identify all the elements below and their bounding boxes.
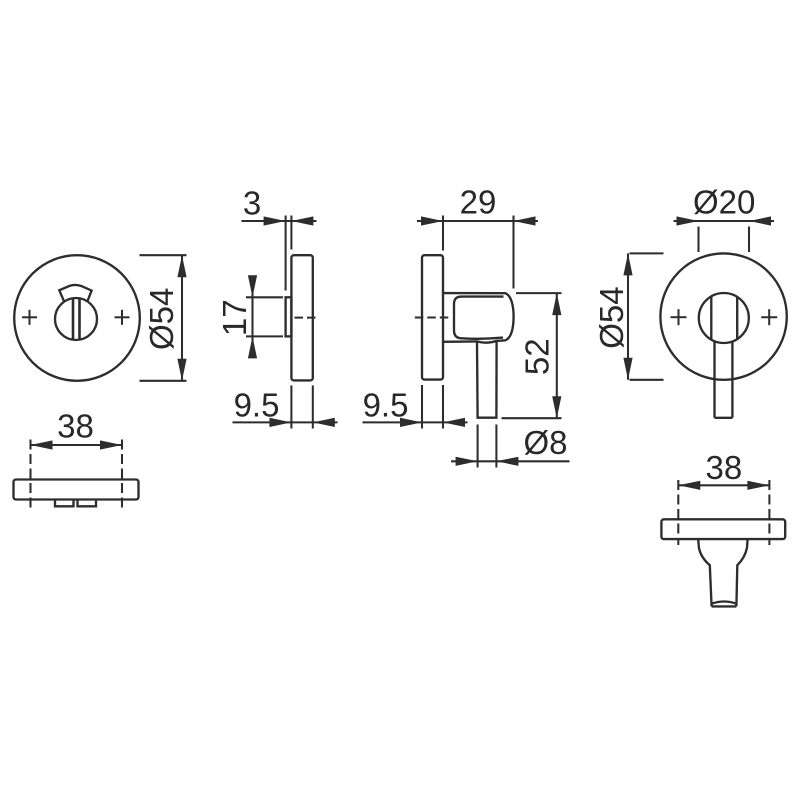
view4 dim O20 arrow left <box>677 216 699 225</box>
view3 dim 9.5 arrow right <box>443 418 465 427</box>
view2 hub block <box>286 297 292 336</box>
view1 rose bottom profile plate <box>14 480 139 500</box>
view1 thumbturn boss circle <box>55 298 97 340</box>
view1 thumbturn slot right line <box>78 299 81 340</box>
view4 screw cross left vertical <box>678 309 680 325</box>
view3 dim 52 arrow down <box>552 396 561 418</box>
view1 profile tab left <box>55 500 74 507</box>
view3 thumbturn knob outline <box>443 293 514 343</box>
svg-text:Ø8: Ø8 <box>523 424 567 461</box>
view3 knob stem <box>477 341 497 418</box>
view1 thumbturn slot left line <box>72 299 75 340</box>
view4 dim 38 arrow left <box>678 481 700 490</box>
view4 screw cross right horizontal <box>761 316 777 318</box>
svg-text:9.5: 9.5 <box>363 386 409 423</box>
view4 knob profile right edge <box>736 539 747 606</box>
view3 dim 29 dimension line <box>417 220 538 222</box>
view4 knob profile bottom <box>712 605 737 607</box>
view1 screw cross right horizontal <box>115 316 130 318</box>
view2 dim 9.5 extension line right <box>312 385 314 428</box>
view4 dim O54 top extension line <box>630 252 664 254</box>
view2 dim 3 extension line left <box>285 216 287 291</box>
view3 dim O8 dimension line <box>451 460 570 462</box>
view4 screw cross left horizontal <box>671 316 687 318</box>
view1 profile tab right <box>78 500 97 507</box>
view4 dim O20 extension line right <box>748 227 750 253</box>
view1 rose front outline <box>14 255 140 381</box>
view1 screw cross left vertical <box>29 310 31 325</box>
view2 dim 3 arrow right <box>291 216 313 225</box>
view3 dim 29 extension line left <box>442 216 444 251</box>
view3 dim O8 extension line right <box>495 425 497 468</box>
view3 dim O8 arrow left <box>456 457 478 466</box>
view4 screw cross right vertical <box>768 309 770 325</box>
view3 dim O8 extension line left <box>477 425 479 468</box>
view4 grip edge right <box>736 297 738 339</box>
view1 screw cross right vertical <box>121 310 123 325</box>
view3 dim 52 top extension line <box>516 292 562 294</box>
view1 thumbturn release cap <box>59 285 91 301</box>
view2 dim 9.5 arrow right <box>313 418 335 427</box>
view1 screw cross left horizontal <box>22 316 37 318</box>
view2 dim 3 extension line right <box>290 216 292 250</box>
view4 stem edge left <box>713 341 715 418</box>
svg-text:Ø54: Ø54 <box>143 288 180 350</box>
view1 dim 38 dimension line <box>31 444 123 446</box>
view1 dim 38 arrow left <box>31 440 53 449</box>
view4 dim O54 arrow down <box>623 358 632 380</box>
view1 dim O54 dimension line <box>181 255 183 381</box>
view4 boss circle <box>699 293 749 343</box>
view1 dim 38 arrow right <box>100 440 122 449</box>
view3 dim 9.5 arrow left <box>400 418 422 427</box>
view4 stem bottom <box>715 417 733 419</box>
view2 dim 3 arrow left <box>264 216 286 225</box>
view3 dim 29 arrow left <box>421 216 443 225</box>
view2 dim 3 dimension line <box>242 220 317 222</box>
view4 dim O20 dimension line <box>674 220 775 222</box>
view4 dim O20 arrow right <box>749 216 771 225</box>
view3 dim O8 arrow right <box>496 457 518 466</box>
svg-text:Ø20: Ø20 <box>693 184 755 221</box>
view2 dim 17 arrow down <box>248 275 257 297</box>
view4 stem end dome line <box>712 602 736 604</box>
view2 dim 17 bottom extension line <box>246 335 283 337</box>
view4 dim O54 bottom extension line <box>630 379 664 381</box>
view3 dim 9.5 dimension line <box>363 421 468 423</box>
view3 dim 52 dimension line <box>556 293 558 418</box>
view4 dim O20 extension line left <box>697 227 699 253</box>
view4 dim 38 dashed extension line left <box>677 480 679 545</box>
view4 dim O54 dimension line <box>627 253 629 379</box>
view3 dim 29 extension line right <box>512 216 514 289</box>
view3 centerline <box>415 316 450 318</box>
svg-text:52: 52 <box>519 338 556 375</box>
view2 dim 17 top extension line <box>246 296 283 298</box>
view3 knob front face contour <box>454 297 504 339</box>
view3 dim 9.5 extension line right <box>442 385 444 429</box>
view4 rose front outline <box>660 253 786 379</box>
view2 dim 9.5 dimension line <box>233 421 338 423</box>
view4 grip edge left <box>710 296 712 339</box>
view4 knob profile left edge <box>698 539 711 606</box>
view2 dim 17 arrow up <box>248 336 257 358</box>
view2 dim 9.5 extension line left <box>290 385 292 428</box>
view3 dim 52 bottom extension line <box>502 417 562 419</box>
view4 dim 38 arrow right <box>747 481 769 490</box>
view4 stem edge right <box>731 342 733 418</box>
svg-text:9.5: 9.5 <box>234 386 280 423</box>
svg-text:29: 29 <box>460 184 497 221</box>
svg-text:Ø54: Ø54 <box>593 286 630 348</box>
view3 dim 52 arrow up <box>552 293 561 315</box>
svg-text:17: 17 <box>216 299 253 336</box>
view3 dim 9.5 extension line left <box>421 385 423 429</box>
view1 dim 38 dashed extension line left <box>29 440 31 511</box>
view2 rose side plate <box>291 255 312 380</box>
view4 dim 38 dimension line <box>678 484 769 486</box>
view3 dim 29 arrow right <box>514 216 536 225</box>
view1 dim O54 arrow up <box>177 255 186 277</box>
svg-text:38: 38 <box>57 408 94 445</box>
view3 rose side plate <box>422 255 443 379</box>
view2 dim 9.5 arrow left <box>269 418 291 427</box>
view2 centerline <box>295 317 320 319</box>
svg-text:38: 38 <box>706 449 743 486</box>
view2 dim 17 dimension line <box>251 276 253 358</box>
view4 dim 38 dashed extension line right <box>768 480 770 545</box>
view4 bottom profile plate <box>661 519 785 539</box>
view1 dim 38 dashed extension line right <box>121 440 123 511</box>
view1 dim O54 arrow down <box>177 359 186 381</box>
view1 dim O54 bottom extension line <box>140 380 187 382</box>
svg-text:3: 3 <box>243 185 261 222</box>
view1 dim O54 top extension line <box>140 254 187 256</box>
view4 dim O54 arrow up <box>623 253 632 275</box>
